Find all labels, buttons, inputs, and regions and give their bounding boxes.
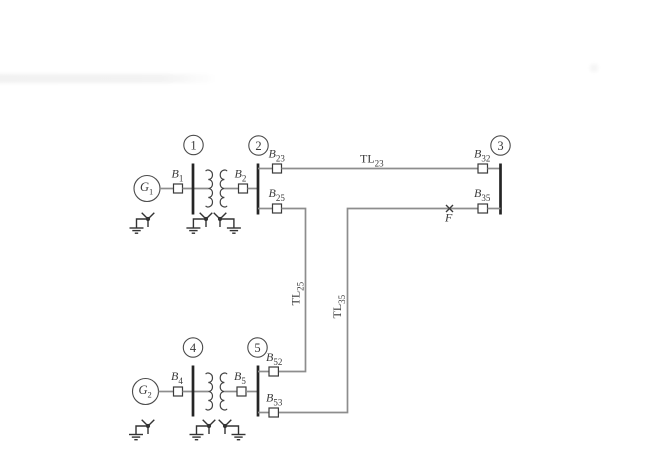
- svg-text:F: F: [444, 211, 453, 225]
- wye neutral of T1 primary: [193, 213, 212, 228]
- ground of G1: [130, 228, 144, 233]
- wire G1 to B1: [160, 188, 174, 190]
- node 1 label: [184, 135, 203, 154]
- wire B35 to TL35 with fault: [278, 209, 478, 413]
- bus 1: [192, 164, 195, 215]
- node 3 label: [491, 136, 510, 155]
- breaker B53: [266, 391, 283, 418]
- breaker B2: [235, 167, 248, 194]
- wye neutral of T2 primary: [197, 420, 216, 435]
- wire B1 through bus 1 to transformer: [183, 188, 209, 190]
- wye neutral of G1: [137, 213, 155, 228]
- wire transformer to B5: [224, 391, 237, 393]
- node 5 label: [248, 338, 267, 357]
- svg-text:2: 2: [255, 139, 261, 153]
- wire B5 to bus 5: [246, 391, 258, 393]
- ground of T1 secondary: [227, 228, 241, 233]
- svg-text:4: 4: [190, 341, 197, 355]
- breaker B23: [269, 147, 286, 174]
- breaker B35: [474, 186, 491, 213]
- wire bus 2 to B25: [258, 208, 273, 210]
- transformer T2: [206, 373, 227, 410]
- generator G2: [133, 379, 159, 405]
- ground of G2: [129, 435, 143, 440]
- node 2 label: [249, 136, 268, 155]
- breaker B25: [269, 186, 286, 213]
- svg-text:1: 1: [190, 139, 196, 153]
- bus 3: [499, 164, 502, 215]
- bus 2: [257, 164, 260, 215]
- wire transformer to B2: [224, 188, 238, 190]
- wire B2 to bus 2: [248, 188, 259, 190]
- breaker B5: [234, 369, 246, 396]
- ground of T1 primary: [186, 228, 200, 233]
- wire bus 5 to B52: [258, 371, 269, 373]
- breaker B1: [172, 167, 184, 194]
- breaker B52: [266, 350, 282, 376]
- wire B4 through bus 4 to transformer: [183, 391, 209, 393]
- svg-text:5: 5: [254, 341, 260, 355]
- ground of T2 secondary: [232, 435, 246, 440]
- fault F: [444, 205, 453, 225]
- bus 5: [257, 366, 260, 417]
- wire G2 to B4: [159, 391, 174, 393]
- wire B32 to bus 3: [488, 168, 501, 170]
- wye neutral of G2: [136, 420, 154, 435]
- wire TL23: [282, 168, 479, 170]
- ground of T2 primary: [190, 435, 204, 440]
- svg-text:3: 3: [497, 139, 503, 153]
- wire bus 5 to B53: [258, 412, 269, 414]
- wye neutral of T1 secondary: [214, 213, 234, 228]
- breaker B32: [474, 147, 490, 174]
- wire B35 to bus 3: [488, 208, 501, 210]
- node 4 label: [183, 338, 202, 357]
- bus 4: [192, 366, 195, 417]
- generator G1: [134, 176, 160, 202]
- wire bus 2 to B23: [258, 168, 273, 170]
- wye neutral of T2 secondary: [219, 420, 239, 435]
- transformer T1: [206, 170, 227, 207]
- wire TL25: [278, 209, 305, 372]
- breaker B4: [171, 369, 183, 396]
